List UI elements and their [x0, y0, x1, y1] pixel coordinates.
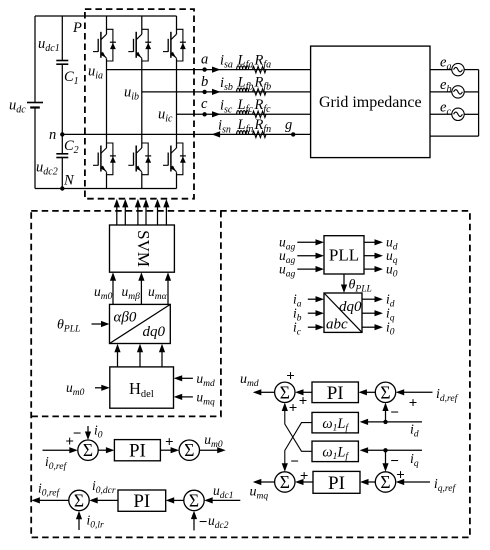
svg-text:Hdel: Hdel: [129, 379, 154, 400]
arrow H_del to transform 3: [161, 351, 163, 367]
svg-text:Lfa: Lfa: [237, 52, 254, 70]
arrow H_del to transform 1: [117, 351, 119, 367]
wire: phase a output u_ia: [107, 69, 311, 71]
wire: grid neutral return: [430, 135, 479, 137]
capacitor C2: [36, 134, 79, 188]
i_q feedback arrow into Sigma: [385, 450, 387, 465]
node a: [202, 67, 206, 71]
svg-text:eb: eb: [440, 77, 451, 95]
node b: [202, 90, 206, 94]
svg-text:θPLL: θPLL: [349, 278, 372, 295]
svg-text:PI: PI: [129, 441, 146, 462]
node N: [60, 186, 64, 190]
signal u_mbeta arrow into SVM: [140, 279, 142, 304]
output u_m0: [200, 449, 220, 451]
svg-text:um0: um0: [94, 284, 113, 302]
svg-text:Rfc: Rfc: [254, 97, 272, 115]
output u_d from PLL: [364, 241, 376, 243]
gate signal arrow 2 (SVM to inverter): [124, 206, 126, 225]
wire: neutral line i_sn: [62, 133, 310, 135]
svg-text:udc1: udc1: [213, 483, 233, 501]
dq0/abc transform block: [324, 293, 362, 333]
gate signal arrow 1 (SVM to inverter): [116, 206, 118, 225]
svg-text:αβ0: αβ0: [114, 310, 137, 326]
svg-text:abc: abc: [326, 317, 348, 333]
signal u_malpha arrow into SVM: [167, 279, 169, 304]
svg-text:Σ: Σ: [280, 382, 290, 402]
resistor R_fc: [253, 111, 267, 117]
PI controller (zero-seq): [114, 440, 160, 461]
svg-text:id: id: [410, 423, 419, 440]
grid impedance box: [311, 46, 430, 158]
output i_d from dq0/abc: [362, 298, 376, 300]
svg-text:iq: iq: [410, 452, 419, 469]
svg-text:i0,lr: i0,lr: [87, 513, 105, 531]
svg-text:Σ: Σ: [189, 490, 199, 510]
svg-text:PI: PI: [328, 473, 345, 494]
theta_PLL input arrow: [92, 323, 103, 325]
cross-coupling wire omega1Lf(d) to u_mq Sigma: [285, 423, 312, 465]
svg-text:SVM: SVM: [134, 230, 153, 267]
transistor Q4: [128, 143, 151, 175]
signal u_dc2 input: [193, 517, 195, 530]
wire: grid right bus: [478, 70, 480, 137]
wire Sigma to PI (d): [365, 391, 375, 393]
svg-text:Rfb: Rfb: [254, 75, 272, 93]
wire: inverter leg b: [141, 16, 143, 189]
H_del block: [110, 367, 174, 408]
resistor R_fb: [253, 89, 267, 95]
svg-text:Σ: Σ: [184, 440, 194, 460]
svg-text:a: a: [201, 52, 208, 68]
gate signal arrow 4 (SVM to inverter): [145, 206, 147, 225]
alpha-beta-0 / dq0 transform block: [110, 304, 171, 343]
svg-text:dq0: dq0: [143, 324, 166, 340]
source e_b: [430, 77, 479, 98]
gate signal arrow 3 (SVM to inverter): [137, 206, 139, 225]
node c: [202, 112, 206, 116]
gate signal arrow 6 (SVM to inverter): [165, 206, 167, 225]
summing junction (i_0,ref out): [69, 490, 89, 510]
output i_0 from dq0/abc: [362, 326, 376, 328]
svg-text:−: −: [390, 405, 399, 421]
wire Sigma to PI: [98, 449, 107, 451]
svg-text:g: g: [285, 117, 292, 133]
signal i_d line: [366, 421, 422, 423]
svg-text:um0: um0: [66, 380, 85, 398]
node n: [60, 132, 64, 136]
inductor L_fc: [237, 111, 249, 115]
signal u_dc1 input: [211, 499, 241, 501]
wire: phase b output u_ib: [142, 91, 311, 93]
input u_ag 2 to PLL: [297, 255, 317, 257]
arrow H_del to transform 2: [139, 351, 141, 367]
summing junction (d-axis error): [375, 382, 395, 402]
svg-text:umd: umd: [240, 372, 259, 389]
current arrow i_sc: [212, 111, 221, 117]
output u_mq: [259, 481, 275, 483]
wire PI to Sigma u_mq: [302, 481, 314, 483]
transistor Q3: [128, 29, 151, 61]
source e_a: [430, 55, 479, 76]
resistor R_fn: [253, 131, 267, 137]
output i_0,ref: [38, 499, 69, 501]
svg-text:umq: umq: [250, 485, 269, 502]
svg-text:umq: umq: [196, 390, 215, 408]
svg-text:isn: isn: [218, 118, 231, 136]
i_d feedback arrow into Sigma: [385, 409, 387, 422]
signal u_m0 arrow into SVM: [112, 279, 114, 304]
output i_q from dq0/abc: [362, 312, 376, 314]
summing junction (u_m0 out): [179, 440, 199, 460]
wire: inverter leg c: [176, 16, 178, 189]
svg-text:isa: isa: [220, 53, 233, 71]
capacitor C1: [38, 16, 79, 134]
wire: bottom DC rail: [35, 188, 177, 190]
svg-text:+: +: [396, 467, 405, 483]
control system outer dashed box: [31, 211, 470, 538]
svg-text:ω1Lf: ω1Lf: [322, 445, 349, 463]
svg-text:udc1: udc1: [38, 36, 60, 54]
inductor L_fb: [237, 88, 249, 92]
PI controller (d-axis): [312, 382, 358, 403]
modulation inner dashed box: [31, 211, 221, 417]
svg-text:P: P: [72, 20, 82, 36]
source e_c: [430, 99, 479, 120]
svg-text:dq0: dq0: [339, 299, 362, 315]
signal i_d,ref: [402, 391, 433, 393]
input u_ag 1 to PLL: [297, 241, 317, 243]
svg-text:Lfc: Lfc: [237, 97, 254, 115]
svg-text:+: +: [409, 395, 418, 411]
junction i_q: [383, 448, 387, 452]
svg-text:Grid impedance: Grid impedance: [319, 94, 422, 111]
theta_PLL arrow PLL to dq0/abc: [343, 274, 345, 287]
wire: phase c output u_ic: [177, 113, 311, 115]
svg-text:id,ref: id,ref: [436, 387, 459, 404]
svg-text:udc2: udc2: [208, 513, 229, 531]
svg-text:+: +: [286, 369, 295, 385]
svg-text:i0,ref: i0,ref: [45, 454, 67, 472]
PLL block: [324, 236, 364, 274]
wire: inverter leg a: [106, 16, 108, 189]
omega1*Lf block (d): [312, 412, 358, 433]
signal i_q line: [366, 449, 422, 451]
transistor Q2: [93, 143, 116, 175]
svg-text:uia: uia: [88, 64, 103, 82]
output u_md: [259, 391, 275, 393]
svg-text:θPLL: θPLL: [57, 318, 80, 335]
svg-text:i0,dcr: i0,dcr: [92, 478, 116, 496]
summing junction (u_mq): [275, 472, 295, 492]
wire PI to Sigma (dc): [96, 499, 118, 501]
signal i_0,ref input: [43, 449, 72, 451]
input i_c to dq0/abc: [308, 326, 318, 328]
svg-text:ec: ec: [440, 99, 451, 117]
svg-text:−: −: [73, 426, 82, 442]
current arrow i_sb: [212, 89, 221, 95]
inductor L_fn: [237, 131, 249, 135]
svg-text:N: N: [63, 173, 75, 189]
svg-text:n: n: [49, 127, 56, 143]
gate signal arrow 5 (SVM to inverter): [157, 206, 159, 225]
svg-text:umβ: umβ: [122, 284, 141, 302]
transistor Q1: [93, 29, 116, 61]
svg-text:C2: C2: [64, 138, 79, 156]
omega1*Lf block (q): [312, 441, 358, 462]
svg-text:C1: C1: [64, 69, 79, 87]
transistor Q6: [163, 143, 186, 175]
wire Sigma to PI (q): [367, 481, 376, 483]
svg-text:i0: i0: [94, 423, 103, 441]
svg-text:Σ: Σ: [380, 472, 390, 492]
svg-text:b: b: [201, 74, 208, 90]
svg-text:+: +: [165, 435, 174, 451]
output u_0 from PLL: [364, 268, 376, 270]
svg-text:PI: PI: [327, 383, 344, 404]
svg-text:Lfn: Lfn: [237, 117, 254, 135]
input i_a to dq0/abc: [308, 298, 318, 300]
battery u_dc: [9, 16, 43, 189]
summing junction (u_md): [275, 382, 295, 402]
summing junction (q-axis error): [375, 472, 395, 492]
svg-text:ea: ea: [440, 55, 451, 73]
svg-text:isc: isc: [220, 98, 233, 116]
resistor R_fa: [253, 66, 267, 72]
svg-text:ω1Lf: ω1Lf: [322, 416, 349, 434]
PI controller (dc balance): [118, 490, 166, 511]
output u_q from PLL: [364, 255, 376, 257]
svg-text:udc2: udc2: [36, 160, 58, 178]
signal u_mq into H_del: [180, 396, 193, 398]
svg-text:−: −: [199, 514, 208, 530]
svg-text:Σ: Σ: [83, 440, 93, 460]
svg-text:+: +: [300, 469, 309, 485]
wire PI to Sigma u_md: [302, 391, 313, 393]
PI controller (q-axis): [313, 471, 360, 493]
svg-text:c: c: [201, 96, 208, 112]
svg-text:PI: PI: [133, 491, 150, 512]
signal i_0 feedback: [87, 426, 89, 434]
svg-text:Σ: Σ: [280, 472, 290, 492]
svg-text:udc: udc: [9, 98, 26, 116]
svg-text:uic: uic: [158, 107, 173, 125]
input i_b to dq0/abc: [308, 312, 318, 314]
svg-text:−: −: [290, 454, 299, 470]
svg-text:umα: umα: [148, 284, 168, 302]
svg-text:Rfn: Rfn: [254, 117, 272, 135]
svg-text:umd: umd: [196, 371, 215, 389]
svg-text:PLL: PLL: [329, 246, 359, 265]
signal i_0,lr input: [78, 517, 80, 530]
signal u_md into H_del: [180, 377, 193, 379]
signal i_q,ref: [402, 481, 430, 483]
svg-text:Σ: Σ: [380, 382, 390, 402]
svg-text:Lfb: Lfb: [237, 75, 254, 93]
transistor Q5: [163, 29, 186, 61]
summing junction (i0 error): [78, 440, 98, 460]
cross-coupling wire omega1Lf(q) to u_md Sigma: [285, 409, 312, 451]
svg-text:+: +: [289, 400, 298, 416]
svg-text:Σ: Σ: [74, 490, 84, 510]
SVM block: [110, 225, 175, 272]
current arrow i_sn (points left): [212, 131, 221, 137]
inverter dashed box: [85, 9, 194, 199]
svg-text:i0,ref: i0,ref: [38, 481, 60, 499]
wire PI to Sigma: [160, 449, 172, 451]
summing junction (dc voltage error): [184, 490, 204, 510]
node g: [291, 132, 295, 136]
svg-text:iq,ref: iq,ref: [434, 477, 457, 494]
svg-text:um0: um0: [204, 432, 223, 450]
wire Sigma to PI (dc): [172, 499, 184, 501]
svg-text:Rfa: Rfa: [254, 52, 272, 70]
current arrow i_sa: [212, 67, 221, 73]
input u_ag 3 to PLL: [297, 268, 317, 270]
svg-text:uib: uib: [124, 85, 139, 103]
inductor L_fa: [237, 66, 249, 70]
signal u_m0 into H_del: [95, 387, 103, 389]
wire: top DC rail: [35, 15, 177, 17]
svg-text:isb: isb: [220, 75, 233, 93]
svg-text:+: +: [299, 393, 308, 409]
junction i_d: [383, 420, 387, 424]
